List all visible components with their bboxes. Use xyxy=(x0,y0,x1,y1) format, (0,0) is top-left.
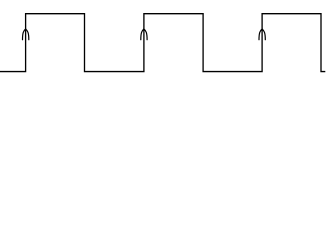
arrow: rising-edge marker 3 xyxy=(259,29,265,40)
wire: square-wave trace (low/high clock signal) xyxy=(0,14,325,72)
arrow: rising-edge marker 1 xyxy=(23,29,29,40)
clock waveform diagram xyxy=(0,0,326,84)
arrow: rising-edge marker 2 xyxy=(141,29,147,40)
